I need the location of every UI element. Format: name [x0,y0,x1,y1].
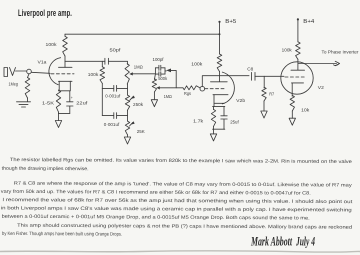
svg-text:500k: 500k [158,76,168,81]
svg-text:B+5: B+5 [225,19,236,25]
svg-text:Mark Abbott: Mark Abbott [250,234,292,249]
cathode RC box V2b [213,107,225,130]
node grid V1a [27,69,32,74]
svg-text:+: + [71,96,73,100]
pot 1M volume [154,74,155,80]
wire ladder top rung [102,87,127,89]
wiper 250k [131,96,135,99]
capacitor C8 [252,72,256,80]
wire B+ rail [65,33,220,35]
wire to ground V2b [213,129,215,134]
svg-text:100pf: 100pf [153,57,165,62]
capacitor 25uf V2b [221,107,227,130]
note paragraphs [1,157,354,239]
wire 50pf to pot [108,60,127,62]
wire ladder left [101,88,103,115]
svg-text:25K: 25K [137,129,146,134]
plate bar V1a [59,66,73,68]
input jack J1 [4,68,8,77]
svg-text:100k: 100k [88,72,99,77]
capacitor 100pf lower [155,72,165,76]
wire caps right [165,68,166,74]
plate bar V2 [291,59,305,70]
resistor 10k [290,95,294,111]
capacitor 50pf [105,58,109,64]
pot 250k [127,84,129,95]
svg-text:Rgs: Rgs [184,91,192,96]
cathode bar V2b [213,94,228,96]
wire junction volume [154,68,156,74]
pot 1M treble [126,61,128,64]
svg-text:0·001uf: 0·001uf [104,122,120,127]
ground tone stack [124,137,130,144]
dot B+5 [218,21,220,23]
cathode bar V2 [292,82,304,84]
wiper 1M treble [129,72,133,75]
arrow to phase inverter [335,61,339,65]
cathode bar V1a [59,80,73,82]
wire R7 drop [263,76,265,88]
svg-text:25uf: 25uf [230,119,239,124]
svg-text:V1a: V1a [38,60,47,65]
cathode legs V1a [59,81,70,91]
wire ladder bottom rung [102,115,127,117]
ground V2 cathode [289,118,295,125]
svg-text:100k: 100k [282,48,293,53]
resistor R7 [262,87,266,101]
resistor 100k slope [101,61,103,67]
wire B+5 drop [219,22,221,54]
resistor 100k plate V2 [296,42,301,60]
wiper arrow volume [166,69,171,73]
tube V1a envelope [49,58,61,85]
wire cathode to ground [58,113,60,120]
resistor 1.7k [213,107,215,110]
svg-text:22uf: 22uf [76,101,88,106]
ground V1a cathode [55,121,61,128]
svg-text:B+4: B+4 [303,19,315,25]
ground volume [151,100,157,107]
svg-text:250k: 250k [133,102,144,107]
capacitor 100pf upper [155,65,165,70]
resistor Rgs [183,86,200,90]
wiper 1M volume [156,86,160,89]
cathode RC box V1a [59,91,70,114]
wire 25k to ground [127,135,129,137]
tube V2b envelope [222,72,234,104]
resistor 100k plate V2b [217,54,222,72]
pot 25K [125,121,129,135]
node grid V2b [200,86,205,91]
svg-text:C8: C8 [247,66,253,71]
dot B+4 [297,18,299,20]
junction rail B+5 [219,33,221,35]
tube V2 envelope [281,62,313,94]
resistor 1.5K [56,90,60,112]
grid V2 dashed [285,76,306,78]
plate bar V2b [211,72,228,82]
wire input to node [16,70,27,72]
wire to phase inverter [298,63,337,65]
capacitor 0.001uf bottom [114,113,117,119]
wire plate V1a [64,61,66,67]
svg-text:10k: 10k [301,108,310,113]
svg-text:1-5K: 1-5K [42,101,55,106]
svg-text:V2: V2 [318,85,324,90]
ground input [17,102,31,107]
svg-text:1.7k: 1.7k [193,118,204,123]
wire wiper to Rgs [160,87,183,89]
svg-text:100k: 100k [191,61,203,66]
svg-text:by Ken Fisher. Though amps hav: by Ken Fisher. Though amps have been bui… [2,231,122,238]
ground R7 [261,111,267,118]
svg-text:Liverpool pre amp.: Liverpool pre amp. [18,8,72,19]
svg-text:50pf: 50pf [110,48,122,53]
svg-text:1MΩ: 1MΩ [164,94,172,99]
svg-text:July 4: July 4 [295,234,315,249]
wire B+4 drop [297,20,299,42]
svg-text:To Phase Inverter: To Phase Inverter [322,50,360,55]
svg-text:0·001uf: 0·001uf [105,93,121,98]
svg-text:V2b: V2b [236,98,245,103]
svg-text:1Meg: 1Meg [9,82,19,87]
paper edge bottom [0,251,360,252]
wire cathode V2 [291,83,293,96]
grid V1a dashed [51,73,74,75]
svg-text:100k: 100k [46,42,58,47]
wire cathode V2b [214,95,224,107]
wire C8 to V2 grid [255,75,284,77]
wire node up to C8 [202,76,249,87]
wire node to grid [31,72,50,73]
svg-text:1MΩ: 1MΩ [134,64,144,69]
resistor 100k plate V1a [64,34,66,36]
ground V2b cathode [210,134,216,141]
capacitor 22uf [67,91,73,114]
capacitor 0.001uf top [114,85,117,91]
svg-text:R7: R7 [269,92,274,97]
svg-text:though the drawing implies oth: though the drawing implies otherwise. [2,166,89,173]
resistor 1Meg [28,74,30,78]
wiper 25K [130,121,134,124]
wire 250k to 25k [127,110,129,121]
grid V2b dashed [205,88,226,90]
wire arrow to grid run [171,70,176,87]
wire volume to ground [153,92,155,100]
